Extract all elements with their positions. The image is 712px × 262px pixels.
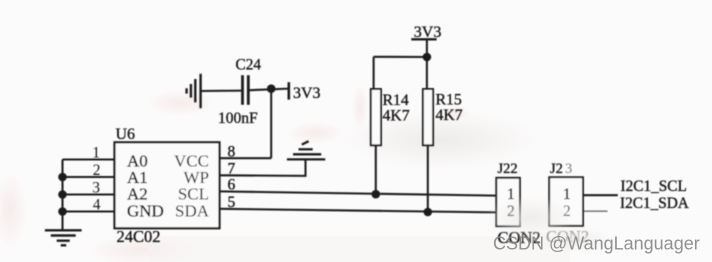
svg-text:I2C1_SCL: I2C1_SCL bbox=[621, 178, 687, 195]
wire J23 pin2 bbox=[583, 210, 608, 212]
power terminal 3V3 bbox=[287, 82, 290, 99]
ground bbox=[45, 230, 82, 245]
ground left of C24 bbox=[187, 74, 201, 108]
wire J23 pin1 bbox=[583, 194, 618, 196]
svg-text:SDA: SDA bbox=[175, 201, 210, 220]
connector J22 bbox=[496, 178, 520, 226]
svg-text:J2: J2 bbox=[550, 161, 563, 177]
pin 6 SCL wire bbox=[220, 191, 497, 195]
wire bbox=[374, 56, 427, 58]
wire bbox=[270, 89, 272, 159]
svg-text:3: 3 bbox=[565, 161, 572, 177]
pin 2 wire bbox=[63, 176, 115, 178]
svg-text:1: 1 bbox=[92, 145, 100, 162]
svg-text:GND: GND bbox=[127, 201, 164, 220]
svg-text:C24: C24 bbox=[236, 57, 262, 74]
pin 1 wire bbox=[63, 158, 115, 160]
svg-text:4K7: 4K7 bbox=[436, 107, 463, 124]
junction dot pin2 bbox=[58, 173, 67, 182]
pin 8 wire bbox=[220, 157, 272, 159]
svg-text:7: 7 bbox=[228, 161, 236, 178]
resistor R14 bbox=[373, 57, 375, 89]
junction dot pin3 bbox=[58, 190, 67, 199]
svg-text:J22: J22 bbox=[498, 161, 518, 177]
svg-text:5: 5 bbox=[228, 194, 236, 211]
svg-text:3: 3 bbox=[92, 180, 100, 197]
svg-text:2: 2 bbox=[93, 162, 101, 179]
svg-text:100nF: 100nF bbox=[218, 110, 258, 127]
svg-text:24C02: 24C02 bbox=[117, 227, 161, 246]
junction dot bbox=[267, 84, 276, 93]
svg-text:R15: R15 bbox=[436, 92, 462, 109]
wire bbox=[250, 89, 289, 91]
svg-text:3V3: 3V3 bbox=[293, 85, 321, 102]
junction dot pin4 bbox=[58, 207, 67, 216]
resistor R15 bbox=[426, 57, 428, 89]
svg-text:U6: U6 bbox=[116, 126, 136, 143]
junction dot bbox=[424, 208, 433, 217]
svg-text:4: 4 bbox=[93, 197, 101, 214]
junction dot bbox=[423, 53, 432, 62]
left bus wire bbox=[61, 160, 63, 230]
faded blob over J23 bottom bbox=[485, 196, 575, 240]
wire bbox=[201, 90, 242, 92]
ground (WP) bbox=[287, 141, 325, 159]
IC U6 box bbox=[115, 142, 220, 228]
svg-text:4K7: 4K7 bbox=[383, 108, 410, 125]
capacitor C24 bbox=[243, 75, 249, 105]
junction dot bbox=[372, 190, 381, 199]
pin 3 wire bbox=[63, 193, 115, 195]
svg-text:R14: R14 bbox=[383, 92, 409, 109]
pin 7 wire bbox=[220, 160, 306, 176]
pin 4 wire bbox=[63, 210, 115, 212]
svg-text:I2C1_SDA: I2C1_SDA bbox=[620, 195, 689, 212]
svg-text:CSDN @WangLanguager: CSDN @WangLanguager bbox=[493, 234, 700, 254]
svg-text:8: 8 bbox=[228, 144, 236, 161]
svg-text:1: 1 bbox=[563, 186, 571, 203]
connector J23 bbox=[549, 177, 583, 226]
svg-text:6: 6 bbox=[228, 177, 236, 194]
pin 5 SDA wire bbox=[220, 209, 497, 213]
